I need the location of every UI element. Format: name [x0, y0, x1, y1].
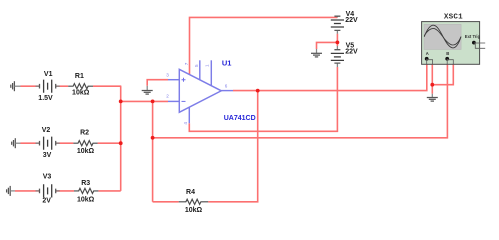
svg-text:1.5V: 1.5V — [38, 95, 53, 102]
svg-text:U1: U1 — [222, 59, 232, 68]
svg-text:B: B — [446, 51, 449, 56]
svg-text:1: 1 — [204, 64, 209, 67]
svg-text:22V: 22V — [345, 17, 358, 24]
svg-text:A: A — [426, 51, 429, 56]
svg-text:10kΩ: 10kΩ — [77, 196, 95, 203]
svg-text:7: 7 — [184, 62, 189, 65]
svg-text:R4: R4 — [186, 189, 195, 196]
svg-text:22V: 22V — [345, 48, 358, 55]
svg-text:V3: V3 — [43, 174, 52, 181]
svg-text:10kΩ: 10kΩ — [77, 148, 95, 155]
svg-text:V1: V1 — [44, 71, 53, 78]
svg-text:10kΩ: 10kΩ — [185, 207, 203, 214]
svg-text:XSC1: XSC1 — [444, 13, 463, 21]
svg-text:5: 5 — [194, 64, 199, 67]
svg-text:2: 2 — [166, 94, 169, 99]
svg-text:UA741CD: UA741CD — [224, 115, 256, 122]
svg-text:V2: V2 — [42, 127, 51, 134]
svg-text:R1: R1 — [75, 73, 84, 80]
svg-text:2V: 2V — [42, 197, 51, 204]
svg-text:6: 6 — [225, 83, 228, 88]
svg-text:Ext Trig: Ext Trig — [465, 34, 481, 39]
svg-text:R2: R2 — [80, 129, 89, 136]
svg-text:4: 4 — [183, 122, 188, 125]
svg-text:R3: R3 — [81, 180, 90, 187]
svg-text:10kΩ: 10kΩ — [72, 90, 90, 97]
svg-text:3V: 3V — [43, 152, 52, 159]
svg-text:3: 3 — [166, 73, 169, 78]
